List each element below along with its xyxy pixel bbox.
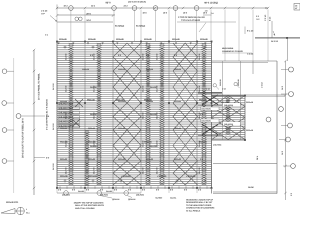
- svg-text:9'-1 1/2: 9'-1 1/2: [247, 30, 254, 33]
- svg-text:1'-2 1/2: 1'-2 1/2: [261, 82, 264, 88]
- right dimension line x285.5: [285, 61, 287, 200]
- svg-text:24LH10: 24LH10: [198, 52, 201, 60]
- grid bubble left A: [2, 69, 7, 74]
- dark X marks near label stack: [72, 99, 83, 127]
- tick arrows at plan top edge: [58, 43, 207, 45]
- svg-text:W16x26: W16x26: [82, 68, 90, 71]
- bottom dim line with bay bubbles: [57, 192, 141, 194]
- svg-text:GLDM: GLDM: [248, 186, 254, 189]
- rotated joist size labels beside chains: [65, 52, 202, 174]
- svg-text:+ W24x55: + W24x55: [186, 175, 196, 178]
- svg-text:24LH10: 24LH10: [78, 190, 84, 193]
- svg-text:24LH10: 24LH10: [93, 166, 96, 174]
- svg-text:24LH10: 24LH10: [65, 52, 68, 60]
- svg-text:W16x26: W16x26: [146, 68, 154, 71]
- svg-text:24LH10: 24LH10: [90, 113, 98, 116]
- right corner vertical line: [287, 39, 289, 61]
- joist chain bay4 x162: [160, 43, 165, 185]
- svg-text:3'-4 1/2 W PANEL EL 7'-6 24: 3'-4 1/2 W PANEL EL 7'-6 24LH10: [46, 98, 49, 130]
- svg-text:B1.5(20ga): B1.5(20ga): [136, 25, 146, 28]
- svg-text:(24LH10A): (24LH10A): [202, 120, 211, 123]
- svg-text:2'-2: 2'-2: [256, 15, 259, 18]
- svg-text:24LH10: 24LH10: [222, 101, 230, 104]
- svg-text:W16x26: W16x26: [116, 38, 124, 41]
- bubble pair 1A 1B: [75, 17, 79, 21]
- svg-text:W21x44: W21x44: [60, 127, 68, 130]
- joist seat ticks along bottom edge: [60, 186, 207, 189]
- svg-text:(3)GLDM: (3)GLDM: [112, 198, 120, 201]
- svg-text:24LH10 SP4: 24LH10 SP4: [59, 103, 74, 106]
- svg-text:MEZZANINE: MEZZANINE: [222, 47, 234, 50]
- svg-text:CHORD EXT BE W ELSEWHERE: CHORD EXT BE W ELSEWHERE: [186, 207, 215, 210]
- svg-text:AT ALL PANELS: AT ALL PANELS: [186, 209, 201, 212]
- connection circles in mezz bay: [213, 84, 216, 87]
- mezzanine column line x222.5: [222, 61, 224, 140]
- svg-text:W16x26: W16x26: [59, 38, 67, 41]
- joist chain extension x228: [226, 97, 231, 136]
- svg-text:(24'-0 24'-0 B DECK): (24'-0 24'-0 B DECK): [128, 1, 146, 4]
- joist chain bay6 x204: [202, 43, 207, 185]
- right corner dim stack: [264, 14, 272, 21]
- svg-text:24LH10: 24LH10: [142, 111, 145, 119]
- dim arrow right corner: [273, 31, 275, 36]
- svg-text:W21x50: W21x50: [88, 158, 96, 161]
- interior beam grid lines horizontal: [57, 71, 212, 161]
- svg-text:24LH10: 24LH10: [65, 139, 68, 147]
- X-bracing bay3: [113, 43, 141, 185]
- svg-text:W16x26: W16x26: [200, 38, 208, 41]
- svg-text:(3)GLDM: (3)GLDM: [128, 198, 136, 201]
- svg-text:W12x19: W12x19: [219, 80, 222, 86]
- joist chain bay4 x148: [146, 43, 151, 185]
- dimension ticks on main line: [56, 7, 269, 9]
- svg-text:W12x19: W12x19: [237, 80, 240, 86]
- svg-text:24LH10: 24LH10: [150, 86, 158, 89]
- svg-text:W10x30 STD: W10x30 STD: [6, 201, 19, 204]
- svg-text:W21x44: W21x44: [199, 98, 207, 101]
- svg-text:1'-2 1/2: 1'-2 1/2: [264, 14, 267, 21]
- svg-text:24LH10: 24LH10: [142, 139, 145, 147]
- svg-text:DESIGNATED WALL C BY JST: DESIGNATED WALL C BY JST: [186, 201, 213, 204]
- svg-text:W21x50: W21x50: [146, 158, 154, 161]
- joist chain bay2 x99: [97, 43, 102, 185]
- svg-text:W24x55: W24x55: [60, 175, 68, 178]
- mezzanine note text: [222, 47, 243, 53]
- deck elevation note block: [178, 16, 205, 22]
- svg-text:(24LH10A): (24LH10A): [224, 104, 233, 107]
- svg-text:36'-6 1/2 OUT TO OUT OF STEEL: 36'-6 1/2 OUT TO OUT OF STEEL 34'-0: [22, 118, 25, 158]
- svg-text:NN DENOTE C ABOVE TOP OF: NN DENOTE C ABOVE TOP OF: [186, 199, 214, 202]
- svg-text:W21x44: W21x44: [60, 100, 68, 103]
- svg-text:W21x44: W21x44: [146, 100, 154, 103]
- column marks at grid intersections: [56, 41, 246, 189]
- sheet note box top right corner: [294, 4, 300, 11]
- braced frame symbol 2 near x210 y130: [198, 125, 222, 136]
- svg-text:FRAMING BY OTHERS: FRAMING BY OTHERS: [222, 50, 243, 53]
- svg-text:TYP U N O AT MEZZ: TYP U N O AT MEZZ: [181, 19, 201, 22]
- south edge double line y192.5: [213, 191, 277, 193]
- svg-text:96'-0: 96'-0: [105, 2, 111, 5]
- svg-text:1'-2 1/2: 1'-2 1/2: [41, 10, 48, 13]
- svg-text:24LH10: 24LH10: [142, 52, 145, 60]
- notes paragraph bottom center: [186, 199, 215, 213]
- short column stub x253: [252, 61, 254, 74]
- svg-text:W16x26: W16x26: [174, 68, 182, 71]
- svg-text:+ W24x55: + W24x55: [157, 175, 167, 178]
- grid bubble mid-left on leader: [16, 114, 21, 119]
- mezzanine beam y95: [212, 94, 286, 96]
- svg-text:1'-8: 1'-8: [205, 9, 208, 12]
- svg-text:C 4 1/2: C 4 1/2: [247, 53, 254, 56]
- right grid bubbles: [289, 67, 294, 72]
- svg-text:+ W24x55: + W24x55: [121, 175, 131, 178]
- plan right edge extension down: [211, 188, 213, 194]
- svg-text:GLDML: GLDML: [170, 197, 177, 200]
- left dimension line vertical x34: [33, 50, 35, 195]
- plan outline (perimeter beams): [57, 42, 212, 189]
- interior beam grid lines vertical: [85, 42, 197, 189]
- X-bracing bay5: [173, 43, 198, 185]
- svg-text:(24LH10A): (24LH10A): [224, 123, 233, 126]
- svg-text:34'-0 1/2: 34'-0 1/2: [52, 123, 55, 130]
- mezzanine edge beam y61: [212, 60, 278, 62]
- svg-text:W21x50: W21x50: [174, 158, 182, 161]
- svg-text:W21x50: W21x50: [60, 158, 68, 161]
- open bay beam y163.5: [213, 163, 277, 165]
- joist lines (open-web steel joists, main roof plan): [57, 44, 245, 186]
- specks below plan bottom: [58, 189, 202, 197]
- boxed labels near braced frame: [201, 107, 220, 110]
- plus marks row near bottom band: [64, 46, 207, 183]
- left grid line x13.8: [13, 58, 15, 193]
- grid bubble left C: [2, 128, 7, 133]
- svg-text:24LH10: 24LH10: [65, 84, 68, 92]
- svg-text:WALL AT THE JOIST BRG SEATS: WALL AT THE JOIST BRG SEATS: [75, 204, 105, 207]
- svg-text:72LH600: 72LH600: [155, 197, 162, 200]
- extension lines from dims to plan: [57, 10, 268, 62]
- right small texts: [222, 85, 284, 160]
- svg-text:W12x19: W12x19: [246, 101, 254, 104]
- second dimension line left y15: [57, 14, 115, 16]
- grid bubble left D: [2, 159, 7, 164]
- svg-text:24LH10: 24LH10: [90, 145, 98, 148]
- joist chain bay1 x71: [69, 43, 74, 185]
- svg-text:24LH10: 24LH10: [90, 86, 98, 89]
- bottom right small marks: [248, 186, 293, 196]
- svg-text:24LH10 SP4: 24LH10 SP4: [59, 107, 74, 110]
- svg-text:AND AT ALL COLUMN: AND AT ALL COLUMN: [75, 207, 95, 210]
- extension joist labels with white backing: [223, 103, 240, 126]
- leader lines from bubbles to labels: [100, 196, 112, 199]
- svg-text:W16x26: W16x26: [172, 38, 180, 41]
- svg-text:24LH10 SP4: 24LH10 SP4: [59, 121, 74, 124]
- svg-text:W21x44: W21x44: [87, 98, 95, 101]
- svg-text:24LH10: 24LH10: [198, 84, 201, 92]
- svg-text:W21x50: W21x50: [118, 158, 126, 161]
- svg-text:24LH10: 24LH10: [142, 166, 145, 174]
- svg-text:24LH10: 24LH10: [106, 190, 112, 193]
- svg-text:W21x44: W21x44: [174, 127, 182, 130]
- svg-text:24LH10: 24LH10: [150, 113, 158, 116]
- short dim line right y15: [203, 14, 212, 16]
- braced frame symbol near x210 y99: [198, 92, 222, 105]
- svg-text:W21x44: W21x44: [174, 100, 182, 103]
- east wall line x277: [276, 61, 278, 194]
- svg-text:48'-0 1/2 (EQ): 48'-0 1/2 (EQ): [204, 2, 218, 5]
- scattered bay dimension specks: [60, 54, 204, 161]
- svg-text:1: 1: [26, 208, 27, 211]
- svg-text:24LH10: 24LH10: [150, 145, 158, 148]
- mezzanine column line x240.5: [240, 61, 242, 140]
- svg-text:S5.1: S5.1: [26, 212, 30, 215]
- svg-text:24LH10: 24LH10: [156, 52, 159, 60]
- joist designation label stack left: [59, 102, 80, 128]
- svg-text:B1.5(20ga): B1.5(20ga): [115, 25, 125, 28]
- svg-text:24LH10: 24LH10: [65, 111, 68, 119]
- svg-text:W21x44: W21x44: [118, 127, 126, 130]
- svg-text:24'-2 1/2: 24'-2 1/2: [271, 40, 279, 43]
- general notes bottom left: [73, 202, 105, 210]
- grid bubble left B: [2, 101, 7, 106]
- svg-text:(24LH10): (24LH10): [62, 193, 70, 196]
- svg-text:34'-0 1/2: 34'-0 1/2: [52, 163, 55, 170]
- svg-text:(24LH10): (24LH10): [136, 193, 144, 196]
- svg-text:(24LH10A): (24LH10A): [202, 108, 211, 111]
- svg-text:C TOP OF DECK EL 23-4 1/2: C TOP OF DECK EL 23-4 1/2: [178, 16, 205, 19]
- X-bracing extension block: [212, 96, 246, 140]
- svg-text:W16x26: W16x26: [144, 38, 152, 41]
- svg-text:(72LH600): (72LH600): [213, 144, 222, 147]
- leader note left y157: [34, 157, 45, 159]
- bottom ticks under plan: [57, 188, 212, 193]
- svg-text:24LH10: 24LH10: [198, 139, 201, 147]
- svg-text:W12x19: W12x19: [246, 129, 254, 132]
- svg-text:24LH10: 24LH10: [65, 166, 68, 174]
- svg-text:24LH10: 24LH10: [198, 166, 201, 174]
- svg-text:24LH10: 24LH10: [156, 166, 159, 174]
- grid bubbles on main dim line: [69, 6, 74, 11]
- svg-text:W16x26: W16x26: [88, 38, 96, 41]
- svg-text:TO THE HIGH POINT COORD: TO THE HIGH POINT COORD: [186, 204, 212, 207]
- svg-text:W21x44: W21x44: [144, 140, 152, 143]
- third dimension line left y22: [57, 21, 113, 23]
- svg-text:- MODIFY THE TOP OF CONCRETE: - MODIFY THE TOP OF CONCRETE: [73, 202, 104, 205]
- svg-text:34'-0 1/2 PANEL TO PANEL: 34'-0 1/2 PANEL TO PANEL: [38, 72, 41, 100]
- main dimension line y8: [57, 7, 268, 9]
- joist chain bay2 lower x87: [85, 130, 90, 186]
- svg-text:W21x44: W21x44: [118, 100, 126, 103]
- svg-text:2'-10: 2'-10: [206, 87, 210, 90]
- extension block outline: [212, 96, 246, 141]
- svg-text:W21x44: W21x44: [88, 127, 96, 130]
- svg-text:34'-0 1/2: 34'-0 1/2: [52, 83, 55, 90]
- svg-text:W16x26: W16x26: [118, 68, 126, 71]
- svg-text:24LH10: 24LH10: [142, 84, 145, 92]
- svg-text:+W24x55: +W24x55: [88, 175, 98, 178]
